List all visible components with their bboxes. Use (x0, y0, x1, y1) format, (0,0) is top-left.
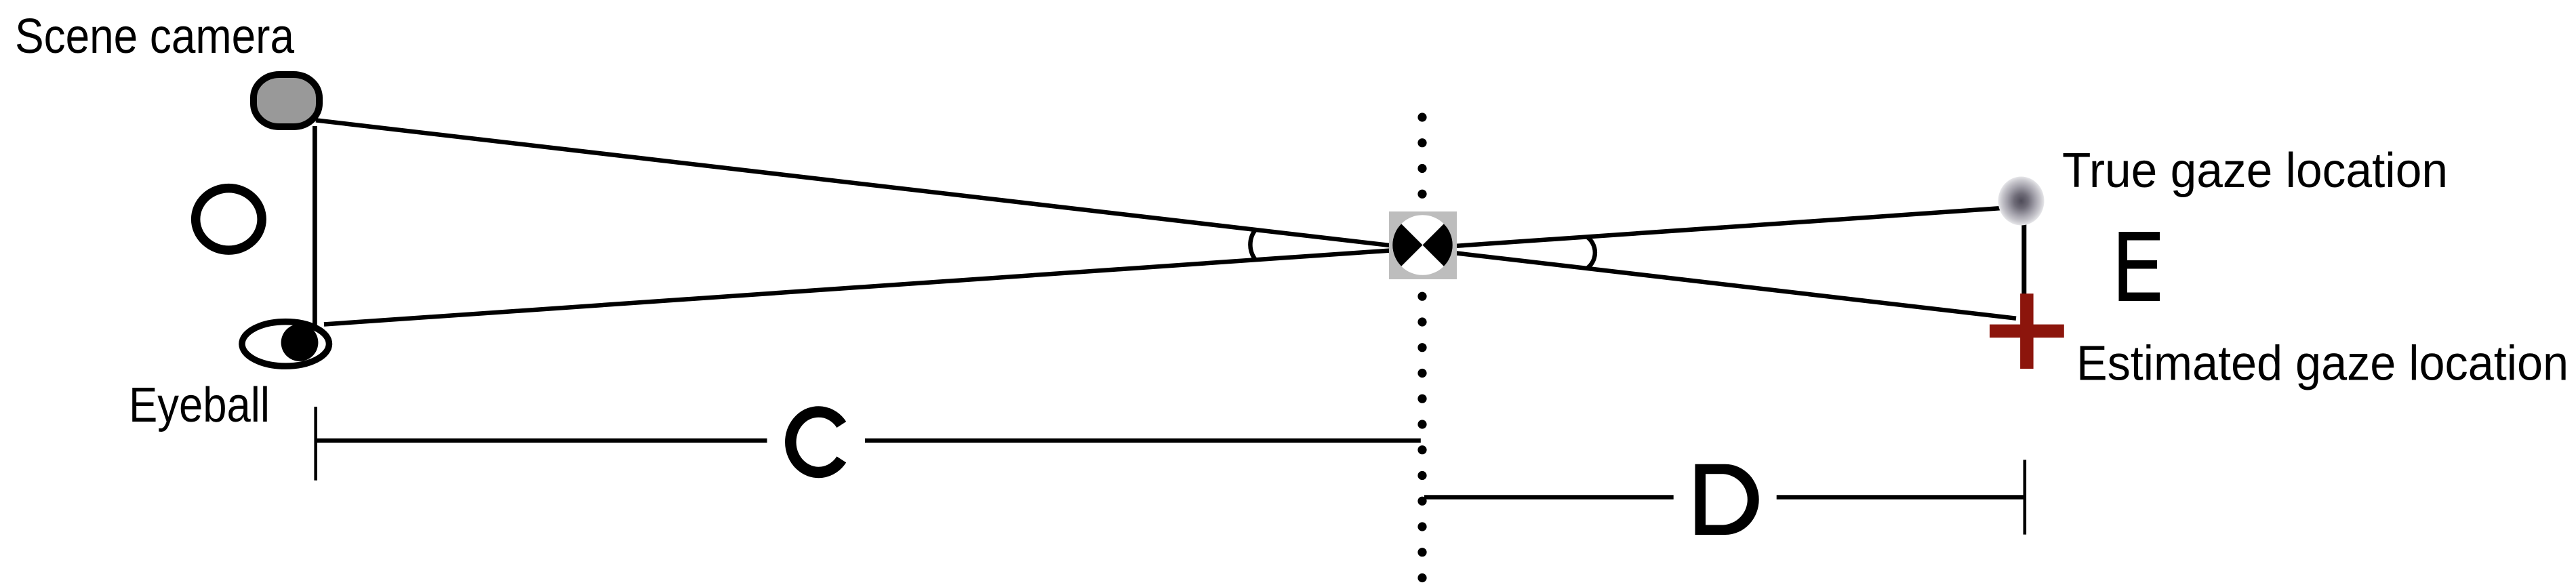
svg-text:True gaze location: True gaze location (2062, 144, 2448, 198)
wire camera-eye offset segment (313, 126, 317, 333)
svg-text:Estimated gaze location: Estimated gaze location (2076, 337, 2569, 391)
wire dotted screen plane (1417, 113, 1426, 582)
dimension line D left segment (1424, 495, 1674, 499)
eyeball pupil (281, 324, 319, 361)
svg-text:Eyeball: Eyeball (129, 378, 270, 432)
svg-text:Scene camera: Scene camera (15, 9, 295, 64)
label C (790, 411, 841, 472)
wire eyeball gaze line (324, 208, 2004, 325)
dimension line C left segment (317, 439, 767, 443)
calibration marker left sector (1392, 224, 1422, 266)
label E (2119, 232, 2160, 301)
scene camera body (254, 75, 319, 127)
angle arc right (1587, 237, 1595, 268)
eyeball sclera (242, 322, 329, 367)
dimension tick D right (2024, 460, 2027, 534)
node O offset label (196, 188, 262, 251)
calibration marker right sector (1423, 224, 1453, 266)
calibration marker square (1389, 211, 1457, 279)
label D (1695, 464, 1759, 535)
dimension line D right segment (1777, 495, 2024, 499)
calibration marker circle (1392, 215, 1453, 275)
dimension line C right segment (865, 439, 1421, 443)
dimension tick C left (314, 407, 317, 481)
angle arc left (1250, 230, 1255, 260)
estimated gaze plus vertical bar (2020, 293, 2034, 369)
wire camera sight line (316, 120, 2016, 318)
estimated gaze plus horizontal bar (1990, 325, 2064, 338)
wire error segment E (2021, 221, 2026, 296)
